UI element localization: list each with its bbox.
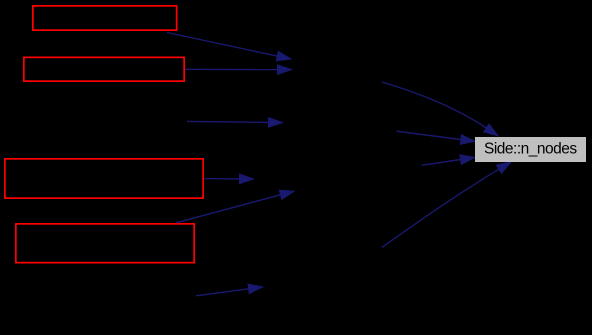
node: caller box 1 (top-left, truncated red) [33, 6, 177, 30]
edge: box4 -> middle node M3 [176, 195, 281, 223]
svg-text:Side::n_nodes: Side::n_nodes [484, 140, 577, 157]
node: caller box 2 (red) [24, 57, 184, 81]
edge: hidden caller -> middle node M2 [187, 121, 269, 122]
edge: box2 -> middle node M1 [185, 68, 278, 70]
edge: middle node M1 -> Side::n_nodes (curved) [382, 82, 486, 128]
node: caller box 3 (red, two-line) [5, 159, 203, 198]
edge: middle node M2 -> Side::n_nodes [397, 131, 461, 139]
edge: hidden caller -> middle node M4 [196, 289, 249, 296]
node: Side::n_nodes (current, grey) [475, 137, 586, 162]
edge: middle node M4 -> Side::n_nodes (curved) [382, 169, 499, 247]
edge: box3 -> middle node M3 [205, 178, 240, 180]
edge: box1 -> middle node M1 [167, 33, 277, 57]
edge: middle node M3 -> Side::n_nodes [422, 160, 461, 166]
node: caller box 4 (red, two-line) [16, 224, 194, 263]
